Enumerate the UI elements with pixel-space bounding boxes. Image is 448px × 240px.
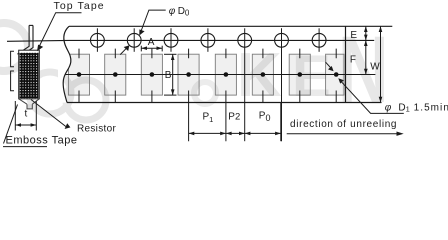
svg-text:Top Tape: Top Tape xyxy=(54,0,105,12)
svg-text:direction of unreeling: direction of unreeling xyxy=(290,119,397,130)
svg-text:D0: D0 xyxy=(178,6,190,18)
svg-text:F: F xyxy=(350,54,356,65)
svg-text:Emboss Tape: Emboss Tape xyxy=(6,134,78,146)
svg-text:φ: φ xyxy=(385,103,392,114)
svg-text:E: E xyxy=(350,30,357,41)
svg-text:P2: P2 xyxy=(228,111,240,122)
svg-text:Resistor: Resistor xyxy=(77,124,116,135)
svg-text:B: B xyxy=(165,70,172,81)
svg-text:A: A xyxy=(148,37,155,48)
svg-text:D1 1.5min: D1 1.5min xyxy=(398,102,448,113)
svg-text:φ: φ xyxy=(169,6,176,17)
svg-text:t: t xyxy=(25,109,28,120)
svg-text:W: W xyxy=(370,62,380,73)
svg-text:P0: P0 xyxy=(259,111,271,123)
